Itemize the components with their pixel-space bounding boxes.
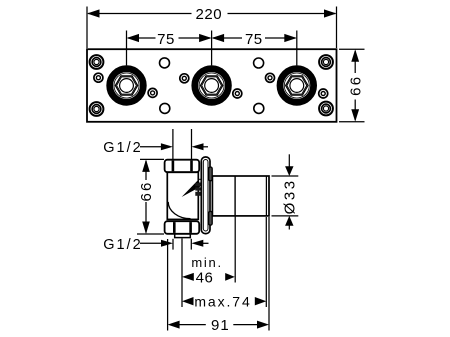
screw dot circle hex1 upper-left [94,73,103,82]
dimension 91 [168,317,269,334]
screw dot circle hex3 lower-right [319,89,328,98]
label G1/2 top [103,129,208,159]
label G1/2 bottom [103,237,208,253]
svg-text:75: 75 [157,31,175,48]
dimension 220 [87,6,337,48]
screw dot circle hex1 lower-right [148,88,157,97]
plain hole top-right [254,58,264,68]
dimension 46 [182,269,235,286]
hex fitting 1 [110,69,144,103]
cartridge details [195,179,202,196]
hex fitting 3 [280,69,314,103]
svg-text:66: 66 [138,180,155,201]
hex fitting 2 [195,69,229,103]
bottom stub [175,234,191,238]
internal arc [168,202,190,219]
bracket top tab [209,167,213,181]
plain hole top-left [160,58,170,68]
svg-text:G1/2: G1/2 [103,140,142,156]
svg-text:max.74: max.74 [194,293,251,309]
internal flow arrow [182,181,201,197]
svg-text:91: 91 [211,317,230,334]
svg-text:46: 46 [196,269,214,286]
dimension Ø33 [272,154,299,229]
ring circle bottom-left [90,102,104,116]
plate outline [87,49,337,122]
screw dot circle hex2 lower-right [233,89,242,98]
ring circle top-right [319,55,333,69]
plain hole bottom-left [160,103,170,113]
screw dot circle hex2 upper-left [180,74,189,83]
dimension 66 (valve height, left) [137,159,164,234]
svg-text:66: 66 [347,75,364,96]
sleeve cylinder [212,176,269,216]
plain hole bottom-right [254,103,264,113]
dimension max. 74 [182,293,266,309]
svg-text:G1/2: G1/2 [103,237,142,253]
dimension 66 (plate height, right side) [339,49,365,122]
svg-text:min.: min. [191,255,222,270]
screw dot circle hex3 upper-left [266,73,275,82]
reference lines below [168,217,269,331]
svg-text:Ø33: Ø33 [282,178,299,214]
valve top nut [165,160,200,173]
dimension 75 (right) [212,31,297,66]
ring circle bottom-right [319,102,333,116]
ring circle top-left [90,55,104,69]
valve body [167,172,198,219]
svg-text:220: 220 [196,6,223,23]
valve bottom nut [165,221,200,234]
label min. [191,255,222,270]
dimension 75 (left) [127,31,212,66]
mounting bracket outer [201,157,210,234]
svg-text:75: 75 [245,31,263,48]
bracket bottom tab [209,211,213,225]
